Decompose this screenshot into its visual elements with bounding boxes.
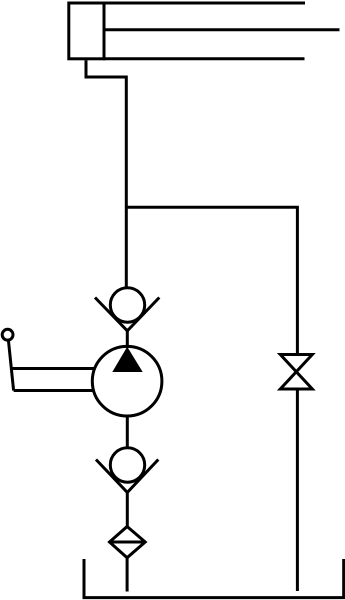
wire CV1 to pump P1 [126, 331, 129, 348]
filter F1 body [110, 527, 146, 558]
cylinder C1 barrel bottom line [103, 57, 305, 60]
wire CV2 to filter F1 [126, 493, 129, 528]
check valve CV1 ball [110, 288, 144, 322]
wire filter F1 to tank T1 [126, 558, 129, 592]
filter F1 element line [110, 541, 146, 544]
pump P1 flow arrow [112, 347, 142, 372]
pump P1 lever arm bottom edge [14, 389, 95, 392]
cylinder C1 barrel top line [103, 2, 305, 5]
wire pump P1 to CV2 [126, 415, 129, 449]
wire valve V1 to tank T1 [296, 389, 299, 591]
wire branch junction to valve V1 [126, 207, 297, 355]
pump P1 lever arm top edge [11, 367, 95, 370]
wire cylinder to main riser [86, 60, 126, 289]
check valve CV2 seat [96, 460, 158, 493]
shut-off valve V1 [280, 355, 312, 390]
cylinder C1 piston box [69, 3, 104, 59]
cylinder C1 piston rod [105, 28, 340, 31]
check valve CV2 ball [110, 448, 144, 482]
tank T1 [84, 559, 344, 598]
pump P1 body [92, 346, 162, 416]
pump P1 lever shaft [8, 340, 13, 391]
check valve CV1 seat [95, 298, 159, 331]
pump P1 lever handle knob [2, 329, 13, 340]
